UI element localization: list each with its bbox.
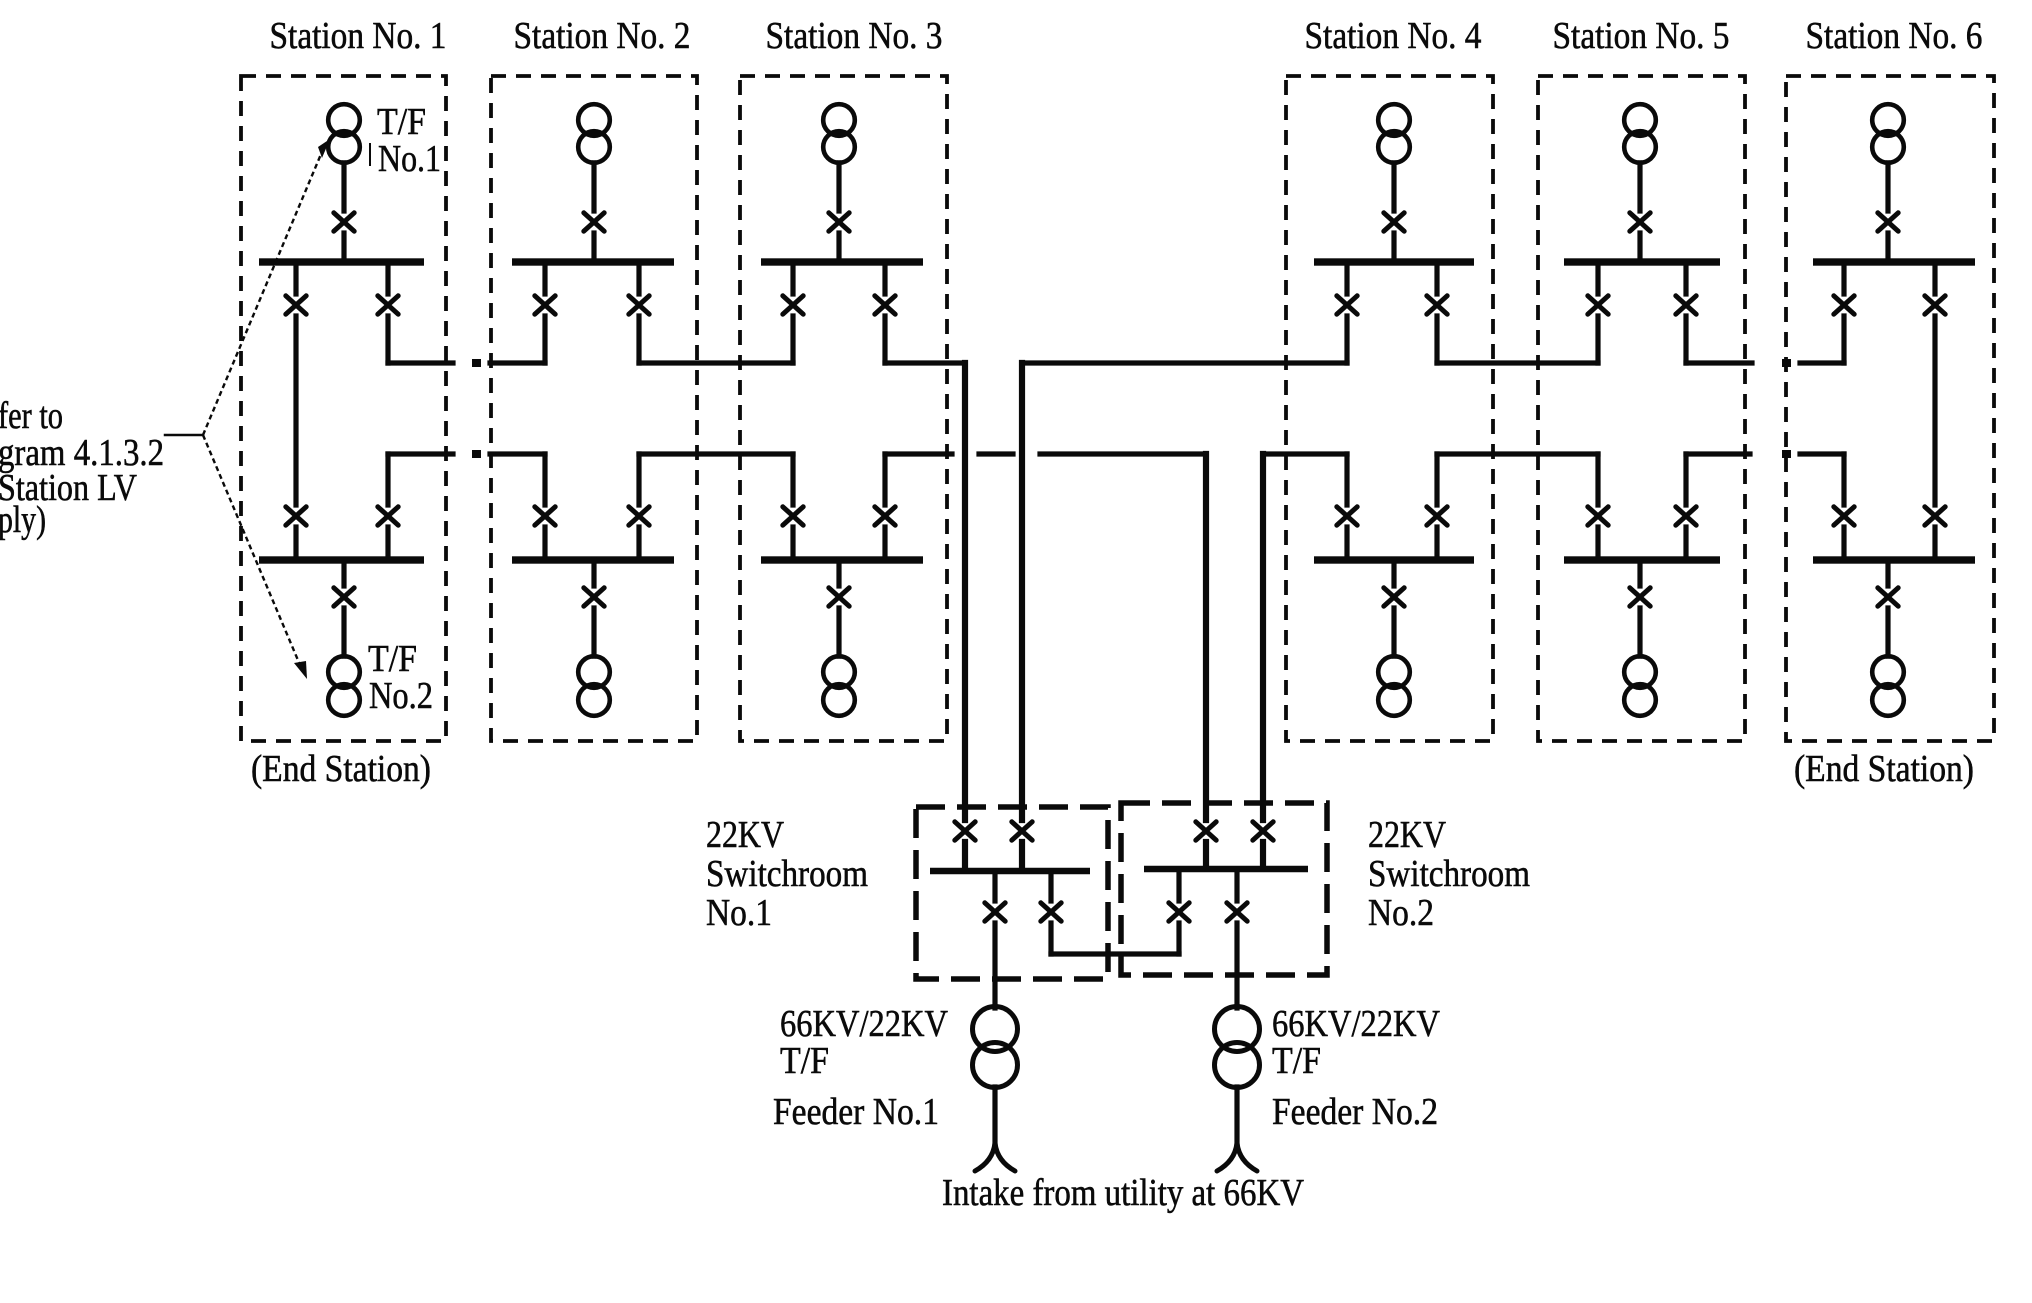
- dash-dot tie point between station 1 and 2 (bottom ring): [472, 450, 481, 458]
- wire: bottom busbar left feeder (station 6): [1841, 454, 1846, 560]
- wire: bottom busbar to T/F No.2 (station 3): [836, 560, 841, 656]
- wire: bottom busbar left feeder (station 4): [1344, 454, 1349, 560]
- svg-text:Switchroom: Switchroom: [1368, 853, 1530, 895]
- switch on bottom-right feeder (station 1): [378, 507, 398, 525]
- wire: T/F No.1 to top busbar (station 3): [836, 163, 841, 262]
- bottom 22KV busbar (station 1): [259, 556, 424, 563]
- switch on T/F No.1 feeder (station 6): [1878, 213, 1898, 231]
- switch on top-right feeder (station 1): [378, 296, 398, 314]
- switch on bottom-left feeder (station 3): [783, 507, 803, 525]
- top 22KV busbar (station 4): [1314, 258, 1474, 265]
- switch on bottom-left feeder (station 4): [1337, 507, 1357, 525]
- switch top of interconnector (station 6): [1925, 296, 1945, 314]
- station 6 label: [1806, 15, 1983, 57]
- leader arrow to T/F No.1 (dashed): [203, 139, 330, 435]
- wire: feeder No.2 to utility intake: [1234, 1087, 1239, 1150]
- Feeder No.1 label: [773, 1091, 939, 1133]
- wire: bottom busbar right feeder (station 5): [1683, 454, 1688, 560]
- switch on feeder No.2 (switchroom No.2): [1227, 903, 1247, 921]
- wire: bottom busbar right feeder (station 1): [385, 454, 390, 560]
- wire: bottom ring station 3 to 22KV switchroom No.2 (hops over crossing wires): [885, 454, 1206, 866]
- svg-text:fer to: fer to: [0, 395, 63, 437]
- switch on top-left feeder (station 3): [783, 296, 803, 314]
- switch on T/F No.2 feeder (station 3): [829, 588, 849, 606]
- wire: bottom busbar to T/F No.2 (station 5): [1637, 560, 1642, 656]
- wire: bottom busbar right feeder (station 3): [882, 454, 887, 560]
- svg-text:No.2: No.2: [369, 675, 433, 717]
- wire: top busbar left feeder (station 2): [542, 262, 547, 363]
- wire: bottom ring station 4 to station 5: [1437, 451, 1598, 456]
- 22KV Switchroom No.2 label: [1368, 814, 1530, 934]
- T/F No.1 label (station 1): [377, 101, 441, 180]
- switch top of interconnector (station 1): [286, 296, 306, 314]
- svg-text:T/F: T/F: [377, 101, 426, 143]
- wire: T/F No.1 to top busbar (station 4): [1391, 163, 1396, 262]
- wire: bottom ring station 4 to 22KV switchroom No.2: [1263, 454, 1347, 866]
- wire: top ring station 4 to 22KV switchroom No.1: [1022, 363, 1347, 868]
- top 22KV busbar (station 1): [259, 258, 424, 265]
- T/F No.2 label (station 1): [368, 638, 433, 717]
- top 22KV busbar (station 3): [761, 258, 923, 265]
- svg-text:Station No. 4: Station No. 4: [1305, 15, 1482, 57]
- top 22KV busbar (station 5): [1564, 258, 1720, 265]
- svg-text:Switchroom: Switchroom: [706, 853, 868, 895]
- switchroom No.2 busbar: [1144, 866, 1308, 873]
- svg-text:Intake from utility at 66KV: Intake from utility at 66KV: [942, 1172, 1304, 1214]
- svg-text:Feeder No.1: Feeder No.1: [773, 1091, 939, 1133]
- wire: T/F No.1 to top busbar (station 5): [1637, 163, 1642, 262]
- wire: bottom busbar to T/F No.2 (station 6): [1885, 560, 1890, 656]
- wire: top ring station 5 to station 6 (with dash-dot break): [1686, 360, 1844, 365]
- bus-section wire top busbar to bottom busbar (station 1): [293, 262, 298, 560]
- svg-text:No.2: No.2: [1368, 892, 1434, 934]
- switch on top-left feeder (station 6): [1834, 296, 1854, 314]
- transformer T/F No.2 (station 5): [1624, 656, 1656, 716]
- wire: bottom busbar to T/F No.2 (station 4): [1391, 560, 1396, 656]
- svg-text:Feeder No.2: Feeder No.2: [1272, 1091, 1438, 1133]
- wire: top busbar left feeder (station 3): [790, 262, 795, 363]
- switch on bottom-right feeder (station 4): [1427, 507, 1447, 525]
- top 22KV busbar (station 6): [1813, 258, 1975, 265]
- utility intake symbol feeder No.2: [1217, 1143, 1257, 1171]
- dash-dot tie point between station 5 and 6 (top ring): [1782, 359, 1791, 367]
- station 1 label: [270, 15, 447, 57]
- transformer T/F No.1 (station 6): [1872, 104, 1904, 163]
- wire: top busbar right feeder (station 2): [636, 262, 641, 363]
- wire: bottom ring station 5 to station 6 (with dash-dot break): [1686, 451, 1844, 456]
- station 4 enclosure (dashed): [1286, 76, 1493, 741]
- switch on switchroom No.2 incomer from station 4: [1253, 822, 1273, 840]
- switch on T/F No.1 feeder (station 5): [1630, 213, 1650, 231]
- 66KV/22KV T/F label (feeder No.1): [780, 1003, 948, 1082]
- transformer 66KV/22KV T/F feeder No.1: [973, 1007, 1018, 1088]
- left margin note (cropped): Refer to Diagram 4.1.3.2 Station LV supply: [0, 395, 164, 541]
- bottom 22KV busbar (station 4): [1314, 556, 1474, 563]
- dash-dot tie point between station 1 and 2 (top ring): [472, 359, 481, 367]
- wire: switchroom No.2 busbar to 66KV/22KV T/F feeder No.2: [1234, 872, 1239, 1008]
- wire: bottom ring station 1 to station 2 (with dash-dot break): [388, 451, 545, 456]
- transformer T/F No.2 (station 6): [1872, 656, 1904, 716]
- svg-text:T/F: T/F: [1272, 1040, 1321, 1082]
- wire: T/F No.1 to top busbar (station 1): [341, 163, 346, 262]
- switch on bottom-left feeder (station 5): [1588, 507, 1608, 525]
- leader arrow to T/F No.2 (dashed): [203, 435, 307, 679]
- transformer T/F No.1 (station 2): [578, 104, 610, 163]
- svg-text:(End Station): (End Station): [251, 748, 431, 790]
- switch on T/F No.2 feeder (station 5): [1630, 588, 1650, 606]
- wire: top busbar right feeder (station 1): [385, 262, 390, 363]
- svg-text:22KV: 22KV: [706, 814, 784, 856]
- station 5 label: [1553, 15, 1730, 57]
- switch on top-left feeder (station 2): [535, 296, 555, 314]
- wire: bottom busbar left feeder (station 5): [1595, 454, 1600, 560]
- switch on top-right feeder (station 5): [1676, 296, 1696, 314]
- wire: switchroom No.2 busbar to interconnector: [1176, 872, 1181, 954]
- switch on bottom-left feeder (station 2): [535, 507, 555, 525]
- switch on bottom-right feeder (station 3): [875, 507, 895, 525]
- 22KV Switchroom No.1 label: [706, 814, 868, 934]
- wire: bottom ring station 2 to station 3: [639, 451, 793, 456]
- wire: top ring station 4 to station 5: [1437, 360, 1598, 365]
- switch bottom of interconnector (station 6): [1925, 507, 1945, 525]
- wire: bottom busbar to T/F No.2 (station 2): [591, 560, 596, 656]
- utility intake symbol feeder No.1: [975, 1143, 1015, 1171]
- wire: top ring station 3 to 22KV switchroom No.1: [885, 363, 965, 868]
- transformer T/F No.2 (station 2): [578, 656, 610, 716]
- switch bottom of interconnector (station 1): [286, 507, 306, 525]
- svg-text:T/F: T/F: [780, 1040, 829, 1082]
- station 3 label: [766, 15, 943, 57]
- switch on T/F No.2 feeder (station 2): [584, 588, 604, 606]
- svg-text:Station No. 1: Station No. 1: [270, 15, 447, 57]
- station 2 enclosure (dashed): [491, 76, 697, 741]
- transformer T/F No.2 (station 1): [328, 656, 360, 716]
- wire: bottom busbar right feeder (station 2): [636, 454, 641, 560]
- wire: bottom busbar left feeder (station 2): [542, 454, 547, 560]
- wire: top ring station 2 to station 3: [639, 360, 793, 365]
- switchroom No.1 busbar: [930, 868, 1090, 875]
- switch on T/F No.1 feeder (station 3): [829, 213, 849, 231]
- (End Station) label - station 1: [251, 748, 431, 790]
- switch on switchroom No.1 incomer from station 3: [955, 822, 975, 840]
- svg-text:66KV/22KV: 66KV/22KV: [1272, 1003, 1440, 1045]
- svg-text:ply): ply): [0, 499, 46, 541]
- switch on bottom-left feeder (station 6): [1834, 507, 1854, 525]
- svg-text:Station No. 5: Station No. 5: [1553, 15, 1730, 57]
- switch on switchroom interconnector (switchroom No.2 side): [1169, 903, 1189, 921]
- switch on T/F No.2 feeder (station 4): [1384, 588, 1404, 606]
- switch on switchroom interconnector (switchroom No.1 side): [1041, 903, 1061, 921]
- transformer T/F No.1 (station 5): [1624, 104, 1656, 163]
- svg-text:(End Station): (End Station): [1794, 748, 1974, 790]
- tick mark left of No.1 label: [369, 143, 371, 166]
- switch on top-right feeder (station 2): [629, 296, 649, 314]
- switch on top-left feeder (station 5): [1588, 296, 1608, 314]
- leader line from note: [165, 434, 203, 437]
- wire: bottom busbar left feeder (station 3): [790, 454, 795, 560]
- station 1 enclosure (dashed): [241, 76, 446, 741]
- switch on bottom-right feeder (station 2): [629, 507, 649, 525]
- wire: switchroom No.1 busbar to interconnector: [1048, 874, 1053, 954]
- Feeder No.2 label: [1272, 1091, 1438, 1133]
- wire: bottom busbar right feeder (station 4): [1434, 454, 1439, 560]
- 22KV Switchroom No.2 enclosure (dashed): [1121, 803, 1327, 975]
- switch on top-right feeder (station 4): [1427, 296, 1447, 314]
- (End Station) label - station 6: [1794, 748, 1974, 790]
- Intake from utility at 66KV label: [942, 1172, 1304, 1214]
- switch on feeder No.1 (switchroom No.1): [985, 903, 1005, 921]
- transformer 66KV/22KV T/F feeder No.2: [1215, 1007, 1260, 1088]
- wire: top busbar left feeder (station 6): [1841, 262, 1846, 363]
- bottom 22KV busbar (station 6): [1813, 556, 1975, 563]
- wire: bottom busbar to T/F No.2 (station 1): [341, 560, 346, 656]
- transformer T/F No.1 (station 3): [823, 104, 855, 163]
- dash-dot tie point between station 5 and 6 (bottom ring): [1782, 450, 1791, 458]
- wire: top busbar left feeder (station 4): [1344, 262, 1349, 363]
- svg-text:Station No. 2: Station No. 2: [514, 15, 691, 57]
- svg-text:No.1: No.1: [378, 138, 441, 180]
- switch on top-left feeder (station 4): [1337, 296, 1357, 314]
- wire: top busbar right feeder (station 5): [1683, 262, 1688, 363]
- station 2 label: [514, 15, 691, 57]
- wire: interconnector between switchroom No.1 and No.2: [1051, 951, 1179, 956]
- wire: top ring station 1 to station 2 (with dash-dot break): [388, 360, 545, 365]
- station 3 enclosure (dashed): [740, 76, 947, 741]
- svg-text:Station No. 6: Station No. 6: [1806, 15, 1983, 57]
- bottom 22KV busbar (station 3): [761, 556, 923, 563]
- wire: T/F No.1 to top busbar (station 6): [1885, 163, 1890, 262]
- switch on T/F No.2 feeder (station 6): [1878, 588, 1898, 606]
- transformer T/F No.1 (station 1): [328, 104, 360, 163]
- transformer T/F No.1 (station 4): [1378, 104, 1410, 163]
- transformer T/F No.2 (station 3): [823, 656, 855, 716]
- bottom 22KV busbar (station 5): [1564, 556, 1720, 563]
- switch on bottom-right feeder (station 5): [1676, 507, 1696, 525]
- svg-text:22KV: 22KV: [1368, 814, 1446, 856]
- station 5 enclosure (dashed): [1538, 76, 1745, 741]
- switch on switchroom No.2 incomer from station 3: [1196, 822, 1216, 840]
- transformer T/F No.2 (station 4): [1378, 656, 1410, 716]
- switch on T/F No.1 feeder (station 2): [584, 213, 604, 231]
- wire: top busbar right feeder (station 3): [882, 262, 887, 363]
- switch on top-right feeder (station 3): [875, 296, 895, 314]
- bottom 22KV busbar (station 2): [512, 556, 674, 563]
- svg-text:No.1: No.1: [706, 892, 772, 934]
- switch on T/F No.1 feeder (station 4): [1384, 213, 1404, 231]
- switch on T/F No.1 feeder (station 1): [334, 213, 354, 231]
- svg-text:66KV/22KV: 66KV/22KV: [780, 1003, 948, 1045]
- top 22KV busbar (station 2): [512, 258, 674, 265]
- wire: T/F No.1 to top busbar (station 2): [591, 163, 596, 262]
- switch on switchroom No.1 incomer from station 4: [1012, 822, 1032, 840]
- station 4 label: [1305, 15, 1482, 57]
- svg-text:T/F: T/F: [368, 638, 417, 680]
- bus-section wire top busbar to bottom busbar (station 6): [1932, 262, 1937, 560]
- wire: top busbar right feeder (station 4): [1434, 262, 1439, 363]
- wire: top busbar left feeder (station 5): [1595, 262, 1600, 363]
- wire: feeder No.1 to utility intake: [992, 1087, 997, 1150]
- svg-text:Station No. 3: Station No. 3: [766, 15, 943, 57]
- 66KV/22KV T/F label (feeder No.2): [1272, 1003, 1440, 1082]
- wire: switchroom No.1 busbar to 66KV/22KV T/F feeder No.1: [992, 874, 997, 1008]
- 22KV Switchroom No.1 enclosure (dashed): [916, 807, 1108, 979]
- switch on T/F No.2 feeder (station 1): [334, 588, 354, 606]
- station 6 enclosure (dashed): [1786, 76, 1994, 741]
